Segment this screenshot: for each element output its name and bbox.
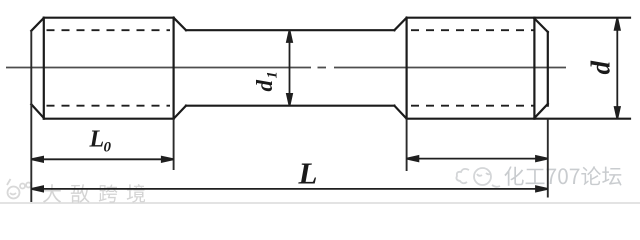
svg-text:d: d <box>252 80 277 92</box>
svg-text:L: L <box>298 156 318 191</box>
svg-text:1: 1 <box>265 71 281 78</box>
svg-text:L: L <box>89 126 105 152</box>
svg-text:d: d <box>586 61 616 75</box>
svg-text:0: 0 <box>104 140 112 156</box>
